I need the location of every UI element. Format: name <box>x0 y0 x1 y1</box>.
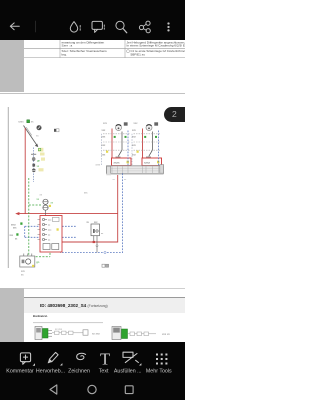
svg-text:xx: xx <box>87 222 90 224</box>
svg-text:xx: xx <box>124 179 127 181</box>
svg-text:xxx: xxx <box>132 144 137 147</box>
svg-text:xxx: xxx <box>132 136 137 139</box>
svg-text:Szer : a: Szer : a <box>62 44 73 48</box>
svg-text:xxx: xxx <box>134 122 139 125</box>
svg-text:xxx: xxx <box>102 154 107 157</box>
svg-text:xxx: xxx <box>132 154 137 157</box>
svg-text:gn: gn <box>37 158 41 162</box>
svg-text:xxxx: xxxx <box>144 161 151 165</box>
svg-text:xx: xx <box>21 274 24 277</box>
svg-text:Kommentar: Kommentar <box>6 368 34 374</box>
svg-text:xxx: xxx <box>102 144 107 147</box>
svg-text:Text: Text <box>99 368 109 374</box>
svg-text:T: T <box>100 349 110 368</box>
svg-text:xxx: xxx <box>84 193 88 195</box>
svg-text:xxx: xxx <box>10 235 14 237</box>
svg-text:xxxx: xxxx <box>96 164 101 166</box>
svg-text:xx: xx <box>37 198 40 201</box>
svg-text:xxxx: xxxx <box>18 121 24 124</box>
svg-text:Ausfüllen ...: Ausfüllen ... <box>114 368 142 374</box>
svg-text:xx: xx <box>37 165 40 168</box>
svg-text:xxxx: xxxx <box>114 161 121 165</box>
svg-text:xx xxx: xx xxx <box>92 331 100 335</box>
svg-text:xxx xx: xxx xx <box>162 332 170 336</box>
svg-text:xxx: xxx <box>102 136 107 139</box>
svg-text:xx: xx <box>51 202 54 205</box>
svg-text:Szer: Szterfscher Vserrauschen: Szer: Szterfscher Vserrauschens <box>62 49 108 53</box>
svg-text:xxxx: xxxx <box>11 224 16 226</box>
svg-text:xx: xx <box>113 179 116 181</box>
svg-text:Mehr Tools: Mehr Tools <box>146 368 172 374</box>
svg-text:Zeichnen: Zeichnen <box>68 368 90 374</box>
svg-text:xx xxx: xx xxx <box>55 328 63 331</box>
svg-text:xxx: xxx <box>132 129 137 132</box>
svg-text:In einem Sztenriege M Czaderuh: In einem Sztenriege M Czaderuhg 6/2/3/ E… <box>127 44 186 48</box>
svg-text:xx: xx <box>36 135 39 138</box>
svg-text:gn: gn <box>36 260 40 264</box>
svg-text:xxx: xxx <box>102 129 107 132</box>
svg-text:Hervorheb...: Hervorheb... <box>36 368 65 374</box>
svg-text:xx: xx <box>15 238 18 240</box>
svg-text:xx: xx <box>31 121 34 124</box>
svg-text:xx: xx <box>40 194 43 197</box>
svg-text:brg.: brg. <box>62 53 67 57</box>
svg-text:xxx: xxx <box>103 122 108 125</box>
svg-text:xxx: xxx <box>13 227 17 229</box>
svg-text:xx: xx <box>101 233 104 235</box>
svg-text:5BF/E1 zu: 5BF/E1 zu <box>131 53 146 57</box>
